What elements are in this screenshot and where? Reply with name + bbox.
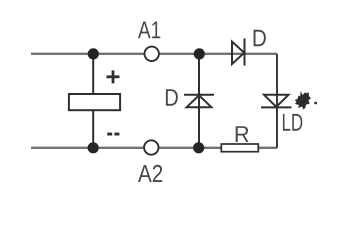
diode D (series, top rail): [232, 38, 245, 65]
label A1: [138, 22, 160, 39]
wire: bottom rail: [31, 147, 277, 149]
wire: middle branch vertical: [198, 54, 200, 148]
wire: top rail: [31, 53, 277, 55]
LED light arrows: [295, 91, 318, 110]
terminal A1: [145, 47, 159, 61]
diode D (freewheeling, middle branch): [184, 95, 214, 107]
label R: [236, 126, 249, 142]
wire: right branch vertical: [276, 54, 278, 148]
label D (top): [254, 30, 266, 46]
junction: top left: [88, 48, 99, 59]
terminal A2: [144, 140, 158, 154]
junction: bottom left: [88, 142, 99, 153]
label A2: [138, 165, 162, 182]
label LD: [283, 114, 302, 131]
resistor R: [221, 144, 258, 152]
junction: top middle: [194, 48, 205, 59]
polarity label +: [107, 70, 120, 83]
LED LD: [261, 95, 292, 108]
relay coil K: [69, 94, 120, 110]
wire: left branch vertical: [92, 54, 94, 148]
polarity label -: [107, 133, 119, 136]
junction: bottom middle: [193, 142, 204, 153]
label D (middle): [166, 89, 178, 106]
